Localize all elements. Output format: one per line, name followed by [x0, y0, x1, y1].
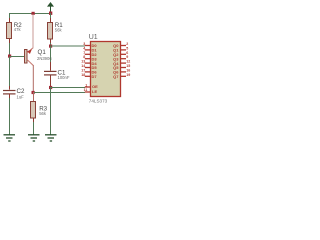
- wire node to OE pin: [50, 87, 85, 89]
- wire Q1 emitter up to rail: [32, 14, 34, 48]
- wire node down to ground: [50, 87, 52, 135]
- pin D4 pin 13: [81, 60, 97, 66]
- wire R3 bottom lead: [33, 118, 35, 122]
- svg-text:2: 2: [126, 42, 128, 46]
- wire R2 to base node: [9, 43, 11, 56]
- node junction C1/OE/ground: [49, 86, 52, 89]
- pin Q7 pin 19: [113, 73, 130, 79]
- wire node to LE pin: [33, 92, 85, 94]
- svg-text:16: 16: [126, 68, 130, 72]
- pin Q3 pin 9: [113, 55, 128, 61]
- pin D0 pin 3: [83, 42, 97, 48]
- svg-text:17: 17: [81, 68, 85, 72]
- node junction Q1 collector/R3/LE: [32, 91, 35, 94]
- svg-text:8: 8: [83, 55, 85, 59]
- svg-text:D7: D7: [92, 74, 98, 79]
- wire node down to C1: [50, 46, 52, 62]
- op-amp U1 74LS373 IC body: [89, 34, 121, 104]
- wire node to D0 pin: [50, 45, 85, 47]
- wire Q1 base: [10, 56, 25, 58]
- wire R1 top lead: [50, 13, 52, 18]
- wire C2 to ground: [9, 98, 11, 135]
- power symbol VCC arrow: [47, 2, 54, 14]
- pin Q6 pin 16: [113, 68, 130, 74]
- capacitor C1: [44, 69, 70, 80]
- wire base node down to C2: [9, 57, 11, 86]
- svg-text:3: 3: [83, 42, 85, 46]
- svg-text:74LS373: 74LS373: [89, 98, 108, 103]
- resistor R3: [31, 102, 48, 119]
- svg-text:12: 12: [126, 60, 130, 64]
- node junction R1/C1/D0: [49, 45, 52, 48]
- pin D7 pin 18: [81, 73, 97, 79]
- wire R2 bottom lead: [9, 38, 11, 43]
- transistor Q1: [25, 48, 53, 66]
- svg-text:1: 1: [85, 84, 87, 88]
- pin D5 pin 14: [81, 64, 97, 70]
- svg-text:15: 15: [126, 64, 130, 68]
- svg-text:100nF: 100nF: [58, 75, 70, 80]
- ground symbol 1: [4, 135, 16, 141]
- pin D6 pin 17: [81, 68, 97, 74]
- svg-text:LE: LE: [92, 89, 97, 94]
- wire top rail: [9, 13, 51, 15]
- pin D2 pin 7: [83, 51, 97, 57]
- svg-text:U1: U1: [89, 34, 98, 41]
- svg-text:5: 5: [126, 46, 128, 50]
- svg-text:7: 7: [83, 51, 85, 55]
- svg-text:19: 19: [126, 73, 130, 77]
- pin LE pin 11: [84, 88, 98, 94]
- pin OE pin 1: [85, 84, 98, 89]
- resistor R1: [48, 22, 64, 39]
- svg-text:13: 13: [81, 60, 85, 64]
- wire node down to R3: [33, 92, 35, 102]
- svg-text:47k: 47k: [14, 27, 22, 32]
- svg-text:14: 14: [81, 64, 85, 68]
- ground symbol 2: [28, 135, 40, 141]
- wire Q1 collector down: [32, 65, 34, 92]
- svg-text:Q7: Q7: [113, 74, 119, 79]
- resistor R2: [7, 22, 23, 39]
- svg-text:56k: 56k: [39, 111, 47, 116]
- node junction R1 / rail: [49, 12, 52, 15]
- pin D3 pin 8: [83, 55, 97, 61]
- ground symbol 3: [45, 135, 57, 141]
- pin D1 pin 4: [83, 46, 97, 52]
- wire R3 to ground: [33, 122, 35, 135]
- wire C1 bottom lead: [50, 75, 52, 87]
- pin Q4 pin 12: [113, 60, 130, 66]
- wire R1 bottom lead: [50, 39, 52, 43]
- svg-text:18: 18: [81, 73, 85, 77]
- svg-text:4: 4: [83, 46, 85, 50]
- node junction Q1 collector / rail: [32, 12, 35, 15]
- wire R2 top lead: [9, 13, 11, 18]
- svg-text:1uF: 1uF: [17, 94, 25, 99]
- svg-text:56k: 56k: [55, 27, 63, 32]
- svg-text:11: 11: [84, 88, 88, 92]
- pin Q2 pin 6: [113, 51, 128, 57]
- pin Q1 pin 5: [113, 46, 128, 52]
- capacitor C2: [3, 86, 25, 99]
- pin Q0 pin 2: [113, 42, 128, 48]
- svg-text:6: 6: [126, 51, 128, 55]
- pin Q5 pin 15: [113, 64, 130, 70]
- node junction base of Q1: [8, 55, 11, 58]
- svg-text:9: 9: [126, 55, 128, 59]
